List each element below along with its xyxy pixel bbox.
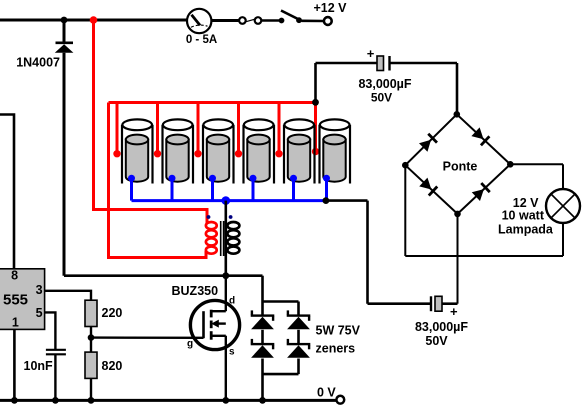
svg-text:1: 1 [12, 315, 19, 329]
svg-text:g: g [187, 339, 193, 350]
svg-text:83,000µF: 83,000µF [415, 320, 468, 334]
svg-text:5W 75V: 5W 75V [316, 324, 361, 338]
svg-text:d: d [229, 296, 235, 307]
svg-text:BUZ350: BUZ350 [172, 284, 219, 298]
svg-text:s: s [229, 347, 235, 358]
svg-text:+: + [367, 46, 375, 61]
svg-text:820: 820 [102, 359, 123, 373]
svg-text:Ponte: Ponte [443, 160, 478, 174]
svg-text:+12 V: +12 V [314, 1, 348, 15]
svg-text:50V: 50V [371, 91, 392, 105]
svg-text:Lampada: Lampada [498, 223, 554, 237]
svg-text:83,000µF: 83,000µF [358, 77, 411, 91]
svg-text:1N4007: 1N4007 [16, 56, 60, 70]
svg-text:8: 8 [11, 269, 18, 283]
svg-text:5: 5 [36, 306, 43, 320]
svg-text:50V: 50V [425, 334, 448, 348]
svg-text:555: 555 [3, 292, 28, 309]
svg-text:3: 3 [36, 283, 43, 297]
svg-text:zeners: zeners [316, 342, 356, 356]
svg-text:+: + [450, 304, 458, 319]
svg-text:0 V: 0 V [317, 386, 336, 400]
svg-text:220: 220 [102, 306, 123, 320]
svg-text:0 - 5A: 0 - 5A [186, 34, 217, 46]
svg-text:10 watt: 10 watt [502, 209, 545, 223]
svg-text:10nF: 10nF [24, 359, 54, 373]
